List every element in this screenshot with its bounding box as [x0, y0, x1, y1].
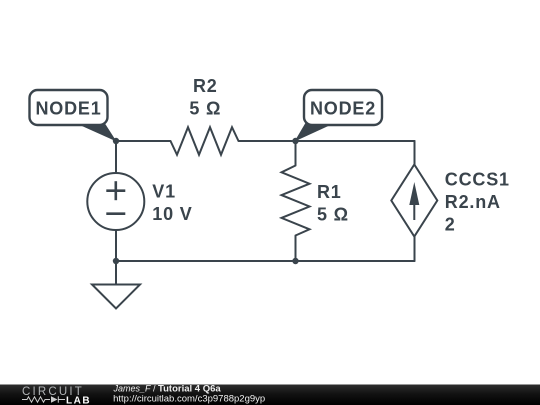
footer title James_F / Tutorial 4 Q6a — [113, 383, 222, 394]
node dot bottom left junction — [113, 258, 119, 264]
svg-text:R2.nA: R2.nA — [445, 192, 501, 212]
wire R1 to bottom rail — [295, 236, 297, 262]
svg-text:V1: V1 — [152, 182, 176, 202]
svg-text:5 Ω: 5 Ω — [189, 98, 221, 118]
node flag NODE1 — [30, 90, 117, 142]
voltage source V1 — [87, 173, 144, 230]
R1 value label 5 ohm — [317, 204, 349, 224]
wire R2 to node2 — [239, 140, 296, 142]
wire CCCS1 to bottom rail — [414, 237, 416, 262]
svg-text:NODE1: NODE1 — [35, 98, 101, 118]
CCCS1 reference label — [445, 170, 510, 190]
svg-text:NODE2: NODE2 — [310, 98, 376, 118]
svg-text:5 Ω: 5 Ω — [317, 204, 349, 224]
svg-text:10 V: 10 V — [152, 204, 192, 224]
node flag NODE2 — [295, 90, 383, 142]
wire bottom rail — [116, 260, 415, 262]
wire node2 to top-right corner — [295, 140, 415, 142]
node dot bottom middle junction — [292, 258, 298, 264]
svg-text:http://circuitlab.com/c3p9788p: http://circuitlab.com/c3p9788p2g9yp — [113, 394, 265, 405]
current source CCCS1 — [391, 165, 437, 237]
svg-text:CCCS1: CCCS1 — [445, 170, 510, 190]
svg-text:R1: R1 — [317, 182, 342, 202]
svg-text:2: 2 — [445, 215, 456, 235]
R2 value label 5 ohm — [189, 98, 221, 118]
wire top-right corner down to CCCS1 — [414, 141, 416, 165]
node dot NODE2 — [292, 138, 298, 144]
footer bar — [0, 385, 540, 405]
CCCS1 gain label R2.nA — [445, 192, 501, 212]
wire node2 down to R1 — [295, 141, 297, 166]
R2 reference label — [193, 76, 218, 96]
CircuitLab logo — [22, 386, 91, 405]
ground — [92, 285, 140, 309]
resistor R1 — [282, 166, 310, 236]
resistor R2 — [171, 127, 239, 155]
wire node1 to R2 — [116, 140, 171, 142]
footer url — [113, 394, 265, 405]
V1 reference label — [152, 182, 176, 202]
wire V1 to bottom node — [115, 230, 117, 261]
svg-text:LAB: LAB — [66, 396, 91, 405]
wire ground stub — [115, 261, 117, 284]
svg-text:R2: R2 — [193, 76, 218, 96]
R1 reference label — [317, 182, 342, 202]
wire node1 down to V1 — [115, 141, 117, 173]
V1 value label 10 V — [152, 204, 192, 224]
CCCS1 value label 2 — [445, 215, 456, 235]
node dot NODE1 — [113, 138, 119, 144]
